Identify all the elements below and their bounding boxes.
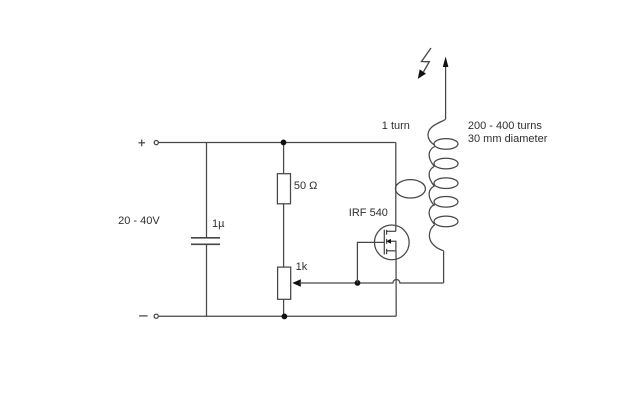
label 1 turn — [382, 121, 410, 132]
secondary coil exit curve — [429, 225, 443, 251]
node junction dot top rail — [281, 140, 287, 146]
secondary coil turn 1 — [434, 139, 458, 150]
label 50 ohm — [294, 181, 318, 192]
label 20 - 40V — [118, 216, 160, 227]
label 200 - 400 turns — [468, 121, 542, 132]
potentiometer wiper arrowhead — [292, 279, 301, 287]
secondary coil turn 4 — [434, 197, 458, 208]
spark lightning bolt — [418, 48, 431, 79]
wire capacitor branch upper — [206, 143, 208, 238]
node junction dot gate-wiper — [355, 280, 361, 286]
secondary coil turn 3 — [434, 178, 458, 189]
primary coil one turn loop — [395, 180, 425, 198]
wire between resistor and pot — [283, 204, 285, 267]
wire top rail — [159, 142, 396, 144]
wire bottom rail — [159, 315, 396, 317]
node junction dot bottom rail — [282, 314, 288, 320]
transistor IRF540 circle — [374, 225, 409, 260]
potentiometer 1k body — [278, 267, 291, 299]
wire drain drop from rail corner — [395, 143, 397, 232]
secondary coil turn 5 — [434, 216, 458, 227]
wire gate lead — [357, 242, 384, 283]
wire source drop to bottom rail — [395, 251, 397, 316]
secondary coil entry curve — [428, 119, 446, 145]
secondary coil left arc 1 — [429, 147, 435, 167]
wire wiper line with hop over source wire — [300, 280, 444, 284]
label 1u capacitor value — [212, 219, 224, 230]
wire resistor branch top — [283, 143, 285, 174]
terminal open circle bottom — [154, 314, 158, 318]
antenna arrowhead — [443, 57, 449, 68]
wire capacitor branch lower — [206, 245, 208, 316]
antenna arrow line — [445, 64, 447, 119]
transistor body arrow — [386, 239, 396, 251]
label IRF 540 — [349, 208, 388, 219]
transistor gate bar — [383, 230, 385, 255]
terminal open circle top — [154, 141, 158, 145]
secondary coil turn 2 — [434, 158, 458, 169]
transistor drain contact — [387, 230, 396, 232]
secondary coil left arc 2 — [429, 166, 435, 186]
capacitor C1 plates — [191, 238, 220, 245]
secondary coil left arc 3 — [429, 186, 435, 206]
label 30 mm diameter — [468, 134, 547, 145]
wire secondary bottom drop — [443, 251, 445, 283]
label 1k — [296, 262, 308, 273]
resistor 50 ohm body — [277, 174, 290, 204]
wire pot bottom to rail — [283, 299, 285, 316]
transistor channel segments — [386, 230, 388, 254]
terminal plus sign — [139, 140, 146, 147]
transistor source contact — [387, 250, 396, 252]
terminal minus sign — [139, 315, 148, 317]
secondary coil left arc 4 — [429, 204, 435, 224]
